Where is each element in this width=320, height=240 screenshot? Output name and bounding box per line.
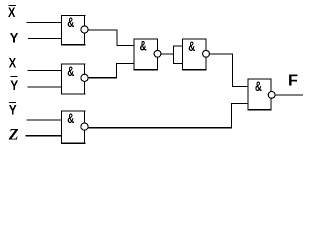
wire G2-to-G4 lower input stub xyxy=(116,63,134,64)
svg-text:&: & xyxy=(67,110,74,126)
NAND gate G4 box xyxy=(134,39,159,71)
connector upper stub to G5 xyxy=(173,45,183,46)
wire G5 output horizontal xyxy=(210,54,233,55)
wire G1 output horizontal xyxy=(88,30,118,31)
svg-text:&: & xyxy=(188,38,195,54)
svg-text:F: F xyxy=(288,73,298,90)
wire input Y xyxy=(28,38,62,39)
NAND gate G5 box xyxy=(182,39,207,71)
connector lower stub to G5 xyxy=(173,63,183,64)
svg-text:Y: Y xyxy=(9,102,18,118)
NAND gate G6 box xyxy=(248,79,272,111)
wire input X-bar xyxy=(27,22,63,23)
wire G3-to-G6 vertical riser xyxy=(231,103,232,128)
wire G1-to-G4 vertical xyxy=(117,30,118,46)
G6 output inversion bubble xyxy=(268,92,275,99)
svg-text:&: & xyxy=(67,63,74,79)
svg-text:X: X xyxy=(9,55,17,71)
svg-text:&: & xyxy=(255,78,262,94)
G2 output inversion bubble xyxy=(81,74,88,81)
G3 output inversion bubble xyxy=(81,123,88,130)
input label Y-bar (first) xyxy=(10,76,19,93)
NAND gate G3 box xyxy=(61,111,86,145)
wire input X xyxy=(28,70,63,71)
wire G5-to-G6 upper input stub xyxy=(232,86,249,87)
svg-text:Z: Z xyxy=(8,127,19,144)
wire G2 output horizontal xyxy=(88,77,117,78)
svg-text:X: X xyxy=(8,4,16,20)
svg-text:Y: Y xyxy=(10,30,19,46)
svg-text:&: & xyxy=(140,38,147,54)
input label X-bar xyxy=(8,4,16,20)
wire G6 output to F xyxy=(275,95,303,96)
input label Y-bar (second) xyxy=(9,102,18,118)
wire G3-to-G6 lower input stub xyxy=(231,103,249,104)
wire G1-to-G4 upper input stub xyxy=(117,45,135,46)
G4 output inversion bubble xyxy=(154,50,161,57)
connector vertical tying G5 inputs xyxy=(173,45,174,64)
svg-text:&: & xyxy=(67,14,74,30)
wire input Z (thick) xyxy=(26,135,63,137)
wire input Y-bar first xyxy=(28,87,62,88)
G5 output inversion bubble xyxy=(203,50,210,57)
G1 output inversion bubble xyxy=(81,26,88,33)
wire G3 output long horizontal xyxy=(88,127,232,128)
wire G4 output to connector xyxy=(161,54,174,55)
NAND gate G2 box xyxy=(61,64,86,95)
svg-text:Y: Y xyxy=(10,77,19,93)
wire input Y-bar second xyxy=(27,120,63,121)
wire G5-to-G6 vertical drop xyxy=(232,54,233,87)
wire G2-to-G4 vertical xyxy=(116,63,117,78)
NAND gate G1 box xyxy=(61,15,86,46)
